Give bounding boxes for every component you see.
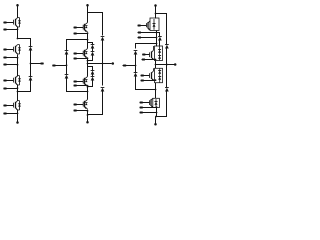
wire string column lower leg C — [159, 41, 161, 47]
wire leg C top rail — [155, 6, 157, 19]
wire string1 mid leg B — [92, 49, 94, 52]
wire outer column mid leg C — [166, 49, 168, 88]
wire phase output leg C — [155, 64, 175, 66]
wire gate stub Q2B — [74, 53, 84, 55]
module box U2C — [155, 46, 163, 61]
node A2 junction — [17, 91, 19, 93]
wire gate stub Q2C — [142, 54, 149, 56]
wire emitter stub Q2A — [3, 57, 18, 59]
diode D4Ci module inner — [155, 99, 158, 107]
node DC- terminal leg C — [154, 123, 157, 126]
wire gate stub Q3B — [74, 81, 84, 83]
wire emitter stub Q4C — [140, 106, 158, 108]
transistor Q3C (IGBT) — [150, 68, 156, 80]
wire string column top leg C — [157, 33, 160, 37]
wire gate stub Q2A — [3, 49, 13, 51]
wire emitter stub Q1C — [138, 32, 158, 34]
wire rail Q1B-Q2B — [87, 33, 89, 49]
wire rail Q3C-Q4C — [155, 83, 157, 99]
wire rail Q1A-Q2A — [17, 27, 19, 39]
wire gate stub Q3A — [3, 80, 13, 82]
wire emitter stub Q2B — [74, 58, 89, 60]
diode D6B bypass lower — [101, 88, 105, 92]
wire gate stub Q4C — [140, 102, 150, 104]
wire phase stub leg A — [3, 64, 18, 66]
wire neutral stub leg A — [31, 63, 44, 65]
node DC- terminal leg A — [16, 121, 19, 124]
diode D1C module inner — [153, 19, 156, 30]
wire top branch to bypass column leg B — [88, 13, 103, 36]
node C2 junction — [155, 89, 157, 91]
diode D1A clamp upper — [29, 47, 33, 51]
node top branch junction leg C — [155, 13, 157, 15]
diode D2B clamp lower — [65, 75, 69, 79]
wire neutral stub leg C — [123, 65, 136, 67]
wire outer column bottom leg C — [156, 91, 167, 117]
wire neutral stub leg B — [52, 65, 66, 67]
wire clamp column mid leg B — [66, 54, 68, 75]
diode D4B series lower — [91, 52, 95, 56]
node bypass-output junction leg B — [102, 63, 104, 65]
wire top branch to outer column leg C — [156, 14, 167, 45]
transistor Q4A (IGBT) — [14, 101, 21, 110]
node DC+ terminal leg A — [16, 4, 19, 7]
wire gate stub Q3C — [141, 75, 150, 77]
wire node B1 to clamp column leg B — [67, 40, 88, 51]
transistor Q2B (IGBT) — [83, 49, 87, 58]
node neutral tap leg C — [135, 65, 137, 67]
diode D5B bypass upper — [101, 37, 105, 41]
diode D5Cs series — [158, 56, 161, 59]
wire clamp column mid leg A — [30, 51, 32, 77]
wire string2 bottom leg B — [87, 80, 93, 88]
wire node C1 line — [136, 43, 158, 49]
transistor Q1C (IGBT) — [147, 21, 151, 30]
transistor Q2C (IGBT) — [150, 46, 156, 60]
diode D3C series — [158, 37, 162, 41]
transistor Q3A (IGBT) — [14, 76, 21, 85]
wire emitter stub Q3B — [74, 85, 89, 87]
wire emitter stub Q1A — [3, 28, 18, 30]
wire clamp column bottom leg C — [136, 77, 156, 90]
wire phase output leg B — [87, 63, 112, 65]
node phase terminal leg B — [112, 62, 115, 65]
diode D6Cs series — [158, 68, 161, 82]
node B2 junction — [87, 91, 89, 93]
module box U3C — [155, 68, 163, 82]
transistor Q4B (IGBT) — [83, 100, 87, 109]
node neutral tap leg A — [30, 63, 32, 65]
diode D1B clamp upper — [65, 51, 69, 55]
wire emitter stub Q4A — [3, 113, 18, 115]
node phase terminal leg C — [174, 63, 177, 66]
wire bypass column mid leg B — [102, 41, 104, 86]
diode D1Cc clamp upper — [134, 51, 138, 55]
diode D7Cs series — [158, 77, 161, 80]
wire leg B top rail — [87, 6, 89, 23]
node B1 junction — [87, 39, 89, 41]
node DC+ terminal leg C — [154, 4, 157, 7]
module box U1C — [150, 18, 159, 31]
diode D5C outer upper — [165, 45, 169, 49]
transistor Q1B (IGBT) — [83, 23, 87, 32]
node A1 junction — [17, 38, 19, 40]
wire rail Q4B emitter — [87, 110, 89, 123]
transistor Q2A (IGBT) — [14, 45, 21, 54]
wire string1 branch leg B — [88, 43, 93, 45]
wire rail Q3B-Q4B — [87, 86, 89, 100]
wire bypass column bottom leg B — [88, 91, 103, 115]
wire rail Q2A emitter — [17, 55, 19, 77]
wire emitter stub Q1B — [74, 32, 89, 34]
transistor Q3B (IGBT) — [83, 77, 87, 86]
wire leg A top rail — [17, 6, 19, 18]
wire clamp column mid leg C — [135, 54, 137, 73]
diode D4C series — [158, 46, 161, 61]
wire emitter stub Q3A — [3, 87, 18, 89]
node bottom branch junction leg B — [87, 114, 89, 116]
transistor Q1A (IGBT) — [14, 18, 21, 27]
wire emitter stub Q3C — [141, 79, 157, 81]
wire clamp column bottom leg A — [18, 80, 31, 92]
wire string2 branch leg B — [88, 67, 93, 71]
diode D6C outer lower — [165, 88, 169, 92]
node outer-output junction leg C — [166, 64, 168, 66]
wire rail Q3A-Q4A — [17, 85, 19, 101]
wire emitter stub Q4B — [74, 110, 89, 112]
wire gate stub Q1B — [74, 27, 84, 29]
wire gate stub Q1A — [3, 22, 13, 24]
wire emitter stub Q2C — [142, 59, 157, 61]
wire clamp column bottom leg B — [67, 79, 88, 92]
node DC+ terminal leg B — [86, 4, 89, 7]
wire U1C emitter exit — [156, 31, 158, 47]
wire U4C emitter exit — [156, 108, 157, 125]
node neutral tap leg B — [66, 64, 68, 66]
node DC- terminal leg B — [86, 121, 89, 124]
diode D8B series lower — [91, 77, 95, 81]
wire string2 mid leg B — [92, 74, 94, 77]
wire aux stub 2 leg C — [140, 112, 158, 114]
module box U4C — [153, 98, 160, 107]
diode D2Cc clamp lower — [134, 73, 138, 77]
node bottom branch junction leg C — [155, 116, 157, 118]
wire node A1 to clamp column — [18, 39, 31, 47]
wire rail Q2C-Q3C — [155, 61, 157, 69]
wire rail Q4A emitter — [17, 110, 19, 123]
wire string1 bottom leg B — [87, 56, 93, 62]
diode D7B series upper — [91, 71, 95, 75]
wire gate stub Q1C — [138, 25, 147, 27]
wire aux stub leg C — [138, 37, 158, 39]
diode D3B series upper — [91, 45, 95, 49]
wire gate stub Q4A — [3, 105, 13, 107]
transistor Q4C (IGBT) — [150, 98, 154, 107]
wire gate stub Q4B — [74, 104, 84, 106]
wire rail Q2B-Q3B — [87, 58, 89, 77]
diode D2A clamp lower — [29, 77, 33, 81]
